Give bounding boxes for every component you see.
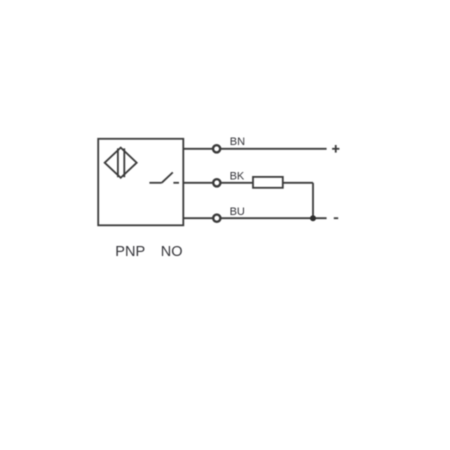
svg-text:PNP: PNP <box>115 244 145 260</box>
svg-text:BU: BU <box>230 206 245 218</box>
svg-text:BN: BN <box>230 136 245 148</box>
svg-text:NO: NO <box>161 244 183 260</box>
svg-text:BK: BK <box>230 171 245 183</box>
